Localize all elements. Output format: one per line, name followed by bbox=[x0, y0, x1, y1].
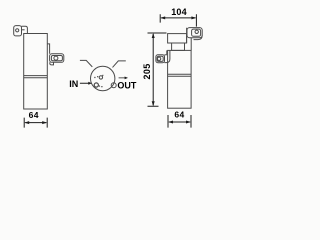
arrowheads dim 64 left bbox=[24, 121, 29, 124]
dim 64 arrow (left view) bbox=[25, 122, 46, 124]
top section (right view) bbox=[168, 34, 187, 43]
OUT arrow bbox=[119, 77, 128, 80]
body (left view) bbox=[24, 34, 48, 110]
svg-text:104: 104 bbox=[171, 7, 187, 17]
arrowheads dim 64 right bbox=[168, 121, 173, 124]
svg-text:OUT: OUT bbox=[117, 81, 136, 91]
dim 205 extension lines bbox=[148, 33, 167, 106]
dim 205 arrow line bbox=[152, 34, 154, 105]
dim 64 extension lines (left view) bbox=[24, 118, 47, 128]
svg-text:64: 64 bbox=[29, 110, 39, 120]
dim 104 arrow bbox=[161, 17, 195, 19]
main body (right view) bbox=[168, 50, 192, 108]
arrowheads dim 205 bbox=[152, 33, 155, 38]
svg-text:IN: IN bbox=[69, 79, 78, 89]
dim 104 extension lines bbox=[160, 14, 196, 26]
seam lines (right view) bbox=[168, 74, 192, 76]
port circle bottom-left (top view) bbox=[94, 83, 98, 87]
svg-text:205: 205 bbox=[142, 63, 152, 79]
top-right bracket foot (right view) bbox=[187, 28, 202, 40]
IN arrow bbox=[80, 82, 92, 85]
tick on top port (top view) bbox=[102, 75, 103, 76]
circle body (top view) bbox=[91, 66, 115, 90]
port circle right (top view) bbox=[111, 83, 116, 88]
bracket B1 top-left (left view) bbox=[14, 26, 28, 36]
pipe left (top view) bbox=[80, 60, 92, 67]
dim 64 extension lines (right view) bbox=[168, 115, 191, 128]
svg-text:64: 64 bbox=[174, 109, 184, 119]
small dots (top view) bbox=[94, 76, 102, 87]
neck (right view) bbox=[172, 43, 185, 50]
port circle small top (top view) bbox=[99, 76, 102, 79]
seam lines (left view) bbox=[24, 76, 48, 78]
dim 64 arrow (right view) bbox=[169, 121, 190, 123]
right bracket (left view) bbox=[47, 44, 64, 65]
right plate (right view) bbox=[187, 28, 192, 51]
left bracket (right view) bbox=[156, 50, 170, 62]
pipe right (top view) bbox=[113, 61, 126, 68]
arrowheads dim 104 bbox=[160, 16, 165, 19]
